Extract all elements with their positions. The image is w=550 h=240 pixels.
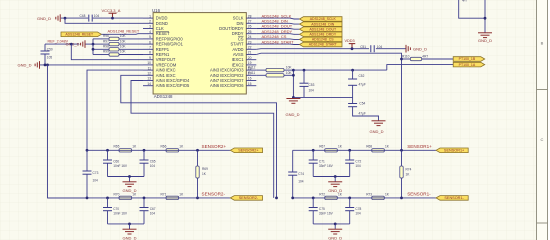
svg-text:R69: R69 [202, 167, 208, 171]
svg-text:SENSOR1-: SENSOR1- [407, 192, 431, 197]
svg-text:6: 6 [149, 40, 151, 44]
junction C72 top [348, 149, 351, 152]
svg-text:104: 104 [309, 89, 315, 93]
svg-text:R74: R74 [406, 168, 412, 172]
wire left stub R96 [93, 38, 109, 40]
pin 8 REFN1 [143, 54, 153, 56]
port flag ADS1248_SCLK [300, 17, 343, 22]
resistor R73 1K [372, 196, 385, 199]
pin 21 AVSS [246, 54, 256, 56]
capacitor C74 [288, 172, 297, 175]
resistor R111 10K [266, 74, 284, 77]
power symbol VCC3.3_A [109, 13, 117, 18]
svg-text:GND_D: GND_D [37, 16, 51, 21]
svg-text:104: 104 [355, 211, 361, 215]
svg-text:VDD3: VDD3 [345, 39, 355, 43]
ground GND_D (SENSOR1- filter) [328, 229, 342, 234]
svg-text:R73: R73 [366, 192, 372, 196]
ground GND_D (SENSOR2- filter) [123, 229, 137, 234]
resistor R98 10K [109, 48, 119, 51]
wire left stub R99 [93, 54, 109, 56]
ground GND_D (top-right) [478, 33, 492, 38]
junction row2 C74 [291, 197, 294, 200]
wire pin12 wrap [121, 75, 277, 198]
resistor R66 1K [166, 149, 179, 152]
wire feed left row2 [48, 65, 88, 198]
svg-text:GND_D: GND_D [18, 62, 32, 67]
resistor R74 1K [400, 166, 403, 178]
svg-text:SENSOR2+: SENSOR2+ [238, 148, 259, 152]
svg-text:10K: 10K [120, 45, 127, 49]
pin 27 DIN [246, 22, 256, 24]
pin 1 DVDD [143, 17, 153, 19]
svg-text:104: 104 [94, 14, 100, 18]
wire gnd stem2 [334, 224, 336, 229]
port flag ADS1248_RESET [61, 32, 102, 37]
svg-text:R71: R71 [161, 192, 167, 196]
overline RESET pin [156, 30, 169, 32]
wire R111 right [284, 74, 293, 76]
svg-text:10nF 16V: 10nF 16V [113, 211, 128, 215]
wire top-right drop [484, 0, 486, 33]
svg-text:R97: R97 [103, 39, 109, 43]
wire C66 stem2 [107, 163, 109, 176]
wire gnd rail row1 [313, 176, 350, 178]
svg-text:C74: C74 [298, 172, 304, 176]
wire C71 stem [312, 150, 314, 160]
pin 9 VREFOUT [143, 59, 153, 61]
resistor R68 1K [372, 149, 385, 152]
wire C75 stem2 [312, 211, 314, 224]
pin 6 REFN0/GPIO1 [143, 43, 153, 45]
wire C67 stem2 [143, 211, 145, 224]
pin 18 AIN3 IEXC/GPIO3 [246, 69, 256, 71]
wire gnd rail row2 [108, 223, 145, 225]
resistor R72 1K [325, 196, 338, 199]
wire gnd stem2 [129, 224, 131, 229]
svg-text:7: 7 [149, 46, 151, 50]
svg-text:104: 104 [355, 164, 361, 168]
svg-text:GND_D: GND_D [328, 188, 342, 193]
capacitor C75 [309, 208, 318, 211]
port flag SENSOR1+ [436, 148, 468, 153]
wire R74 stem top [401, 150, 403, 166]
wire AVSS rail down [256, 53, 401, 150]
svg-text:R99: R99 [103, 50, 109, 54]
wire C78 stem [349, 198, 351, 208]
svg-text:27: 27 [248, 20, 252, 24]
pin 24 CS [246, 38, 256, 40]
svg-text:ADS1248_RESET: ADS1248_RESET [108, 29, 140, 34]
resistor R67 1K [325, 149, 338, 152]
svg-text:5: 5 [149, 35, 151, 39]
svg-text:SENSOR1-: SENSOR1- [444, 196, 464, 200]
wire RESET to pin4 [102, 33, 144, 36]
junction C53 top [303, 69, 306, 72]
wire ADS1248_DRDY wire [256, 33, 299, 36]
pin 16 AIN7 IEXC/GPIO7 [246, 80, 256, 82]
wire left stub R98 [93, 48, 109, 50]
ground GND_D AIN row [35, 61, 39, 69]
junction VCC3.3_A tap [111, 17, 114, 20]
svg-text:C66: C66 [113, 159, 119, 163]
port flag PT100_1A [453, 62, 485, 67]
ground GND_D (SENSOR2+ filter) [123, 182, 137, 187]
overline CS pin [238, 35, 244, 37]
junction gnd stem row1 [128, 175, 131, 178]
svg-text:R65: R65 [114, 145, 120, 149]
wire to R110 [402, 58, 411, 60]
svg-text:SENSOR1+: SENSOR1+ [444, 148, 465, 152]
wire C72 stem [349, 150, 351, 160]
capacitor C72 [345, 160, 354, 163]
wire C53 stem bottom [303, 86, 305, 97]
svg-text:C50: C50 [47, 47, 53, 51]
port flag SENSOR1- [436, 196, 468, 201]
wire AVDD left segment [256, 48, 369, 51]
svg-text:24: 24 [248, 35, 252, 39]
svg-text:33nF 16V: 33nF 16V [319, 211, 334, 215]
wire REF stack bus [92, 39, 94, 55]
wire top-right L [459, 0, 485, 18]
junction C78 top [348, 197, 351, 200]
svg-text:GND_D: GND_D [286, 112, 300, 117]
wire ADS1248_SCLK wire [256, 17, 299, 20]
svg-text:C71: C71 [319, 159, 325, 163]
svg-text:10nF 16V: 10nF 16V [113, 164, 128, 168]
ground GND_D (C54) [372, 121, 386, 126]
capacitor C51 [371, 45, 374, 52]
svg-text:16: 16 [248, 77, 252, 81]
svg-text:R72: R72 [319, 192, 325, 196]
pin 13 AIN4 IEXC/GPIO4 [143, 80, 153, 82]
wire C73 stem bottom [86, 174, 88, 198]
wire to VREFOUT pin9 [71, 44, 143, 60]
wire C50 to GND wire [44, 54, 46, 65]
svg-text:C54: C54 [359, 101, 365, 105]
junction R tie mid [292, 74, 295, 77]
svg-text:R110: R110 [402, 55, 410, 59]
wire R110 to PT100_1B [422, 58, 454, 60]
wire C52 stem bottom [352, 85, 354, 97]
wire R69 stem top [197, 150, 199, 166]
svg-text:SENSOR2-: SENSOR2- [239, 196, 259, 200]
svg-text:ADS1248_START: ADS1248_START [309, 43, 338, 47]
pin 2 DGND [143, 22, 153, 24]
wire ADS1248_CS wire [256, 38, 299, 41]
junction VDD3 tap [351, 47, 354, 50]
svg-text:C75: C75 [319, 207, 325, 211]
pin 5 REFP0/GPIO0 [143, 38, 153, 40]
wire ADS1248_START wire [256, 43, 299, 45]
wire R112/R111 tie [292, 70, 294, 98]
svg-text:33nF 16V: 33nF 16V [319, 164, 334, 168]
svg-text:22: 22 [248, 46, 252, 50]
pin 12 AIN1 IEXC [143, 74, 153, 76]
svg-text:28: 28 [248, 14, 252, 18]
capacitor C53 [300, 83, 309, 86]
pin 15 AIN6 IEXC/GPIO6 [246, 85, 256, 87]
wire C74 stem top [292, 150, 294, 172]
wire GND_D to stack [86, 43, 94, 45]
svg-text:SENSOR2+: SENSOR2+ [202, 144, 227, 149]
ground GND_D top-left [56, 14, 60, 22]
svg-text:ADS1248_CS: ADS1248_CS [312, 38, 334, 42]
junction row2 C73 [86, 197, 89, 200]
resistor R71 1K [166, 196, 179, 199]
svg-text:GND_D: GND_D [328, 235, 342, 240]
pin 26 DOUT/DRDY [246, 28, 256, 30]
wire gnd stem [334, 177, 336, 182]
svg-text:104: 104 [150, 164, 156, 168]
svg-text:ADS1248_DOUT: ADS1248_DOUT [309, 27, 337, 31]
port flag ADS1248_DIN [300, 22, 343, 27]
wire row2 SENSOR2- [48, 197, 231, 199]
junction row1 left [86, 149, 89, 152]
ground GND_D (R tie) [286, 99, 300, 104]
svg-text:R70: R70 [114, 192, 120, 196]
svg-text:4R7: 4R7 [462, 0, 468, 3]
wire gnd stem [129, 177, 131, 182]
pin 10 VREFCOM [143, 64, 153, 66]
junction sensor feed tap [46, 64, 49, 67]
svg-text:AIN6 IEXC/GPIO6: AIN6 IEXC/GPIO6 [210, 83, 244, 88]
pin 11 AIN0 IEXC [143, 69, 153, 71]
wire C48 right to DVDD pin1 [93, 17, 143, 19]
pin 22 AVDD [246, 48, 256, 50]
svg-text:GND_D: GND_D [478, 38, 492, 43]
svg-text:25: 25 [248, 30, 252, 34]
svg-text:105: 105 [47, 56, 53, 60]
svg-text:10K: 10K [120, 34, 127, 38]
wire row1 SENSOR1+ [293, 149, 436, 151]
svg-text:SENSOR2-: SENSOR2- [202, 192, 226, 197]
svg-text:10K: 10K [286, 71, 293, 75]
junction stack row2 [92, 43, 95, 46]
pin 4 RESET [143, 33, 153, 35]
svg-text:ADS1248_SCLK: ADS1248_SCLK [310, 17, 337, 21]
junction VREFOUT tap [70, 43, 73, 46]
svg-text:ADS1248_DRDY: ADS1248_DRDY [309, 32, 337, 36]
pin 19 IEXC2 [246, 64, 256, 66]
svg-text:10K: 10K [286, 66, 293, 70]
wire pin17 stub [256, 74, 266, 76]
resistor R96 10K [109, 37, 119, 40]
svg-text:9: 9 [149, 56, 151, 60]
wire row2 SENSOR1- [293, 197, 436, 199]
wire R98 to pin7 [119, 48, 143, 50]
resistor R99 10K [109, 53, 119, 56]
op-amp U16 ADS1248 body [153, 13, 246, 94]
svg-text:C78: C78 [355, 207, 361, 211]
svg-text:R96: R96 [103, 34, 109, 38]
junction gnd stem row2 [128, 223, 131, 226]
wire filter top rail [293, 69, 386, 71]
wire C54 to ground [353, 107, 379, 121]
pin 14 AIN5 IEXC/GPIO5 [143, 85, 153, 87]
svg-text:R66: R66 [161, 145, 167, 149]
pin 28 SCLK [246, 17, 256, 19]
capacitor C70 [103, 208, 112, 211]
svg-text:1: 1 [149, 14, 151, 18]
wire pin13 wrap to right row2 [131, 81, 274, 198]
svg-text:ADS1248_RESET: ADS1248_RESET [65, 32, 93, 36]
svg-text:26: 26 [248, 25, 252, 29]
wire left stub R97 [93, 43, 109, 45]
svg-text:AIN5 IEXC/GPIO5: AIN5 IEXC/GPIO5 [156, 83, 190, 88]
svg-text:GND_D: GND_D [122, 235, 136, 240]
wire C74 stem bottom [292, 175, 294, 198]
svg-text:21: 21 [248, 51, 252, 55]
wire GND to AIN0 pin10 [40, 64, 143, 66]
svg-text:47µF: 47µF [359, 83, 366, 87]
ground GND_D (SENSOR1+ filter) [328, 182, 342, 187]
junction rail tee [292, 96, 295, 99]
svg-text:C70: C70 [113, 207, 119, 211]
wire DGND pin2 [65, 18, 143, 23]
junction top-right junction [484, 17, 487, 20]
junction gnd stem row1 [334, 175, 337, 178]
junction wrap A join [275, 197, 278, 200]
svg-text:104: 104 [150, 211, 156, 215]
svg-text:20: 20 [248, 56, 252, 60]
wire pin18 stub [256, 69, 266, 71]
wire C67 stem [143, 198, 145, 208]
capacitor C71 [309, 160, 318, 163]
resistor R70 1K [119, 196, 132, 199]
svg-text:8: 8 [149, 51, 151, 55]
wire C73 stem top [86, 150, 88, 171]
svg-text:C72: C72 [355, 159, 361, 163]
svg-text:R67: R67 [319, 145, 325, 149]
svg-text:R111: R111 [248, 71, 255, 75]
wire C72 stem2 [349, 163, 351, 176]
svg-text:2: 2 [149, 20, 151, 24]
capacitor C78 [345, 208, 354, 211]
wire C65 stem2 [143, 163, 145, 176]
svg-text:12: 12 [147, 72, 151, 76]
power symbol VDD3 [349, 44, 356, 49]
pin 25 DRDY [246, 33, 256, 35]
svg-text:10: 10 [147, 61, 151, 65]
junction gnd stem row2 [334, 223, 337, 226]
wire R99 to pin8 [119, 54, 143, 56]
pin 23 START [246, 43, 256, 45]
junction C67 top [143, 197, 146, 200]
sheet border [537, 0, 548, 240]
svg-text:VCC3.3_A: VCC3.3_A [102, 8, 121, 13]
svg-text:GND_D: GND_D [122, 188, 136, 193]
capacitor C65 [140, 160, 149, 163]
wire pin11 feed left row1 [87, 70, 143, 150]
wire C66 stem [107, 150, 109, 160]
port flag ADS1248_START [300, 42, 343, 47]
svg-text:14: 14 [147, 82, 151, 86]
svg-text:23: 23 [248, 40, 252, 44]
resistor R112 10K [266, 68, 284, 71]
svg-text:C: C [541, 137, 544, 142]
port flag SENSOR2- [230, 196, 262, 201]
wire AVDD right segment [376, 48, 406, 50]
capacitor C73 [83, 171, 92, 174]
ground GND_D AVDD end [406, 45, 410, 53]
junction R tie top [292, 69, 295, 72]
svg-text:104: 104 [93, 178, 99, 182]
svg-text:ADS1248_START: ADS1248_START [262, 39, 295, 44]
junction R69 bottom [196, 197, 199, 200]
svg-text:13: 13 [147, 77, 151, 81]
svg-text:104: 104 [298, 179, 304, 183]
junction R74 bottom [400, 197, 403, 200]
junction C50 bottom [44, 64, 47, 67]
svg-text:C53: C53 [309, 83, 315, 87]
junction C65 top [143, 149, 146, 152]
wire ADS1248_DIN wire [256, 22, 299, 25]
svg-text:4: 4 [149, 30, 151, 34]
svg-text:15: 15 [248, 82, 252, 86]
svg-text:C65: C65 [150, 159, 156, 163]
port flag PT100_1B [453, 57, 485, 62]
junction C66 top [106, 149, 109, 152]
svg-text:47µF: 47µF [359, 112, 366, 116]
pin 3 CLK [143, 28, 153, 30]
wire filter mid rail [293, 96, 352, 98]
port flag ADS1248_CS [300, 37, 343, 42]
capacitor C52 [348, 79, 357, 85]
svg-text:B: B [541, 41, 544, 46]
svg-text:104: 104 [377, 45, 383, 49]
svg-text:ADS1248_DIN: ADS1248_DIN [311, 22, 334, 26]
wire REF down to C50 [44, 44, 46, 51]
junction C75 top [312, 197, 315, 200]
wire C65 stem [143, 150, 145, 160]
wire row1 SENSOR2+ [87, 149, 230, 151]
ground GND_D REF row [81, 40, 85, 48]
capacitor C66 [103, 160, 112, 163]
svg-text:SENSOR1+: SENSOR1+ [407, 144, 432, 149]
capacitor C54 [348, 104, 357, 107]
wire C78 stem2 [349, 211, 351, 224]
junction R69 top [196, 149, 199, 152]
capacitor C48 [89, 15, 92, 22]
resistor R110 4R7 [410, 57, 421, 60]
wire ADS1248_DOUT wire [256, 28, 299, 31]
wire PT100_1A wire [387, 65, 453, 71]
wire R96 to pin5 [119, 38, 143, 40]
resistor R69 1K [196, 166, 199, 178]
junction R74 top [400, 149, 403, 152]
svg-text:GND_D: GND_D [370, 129, 384, 134]
svg-text:C51: C51 [360, 45, 366, 49]
wire C53 stem top [303, 70, 305, 83]
resistor R65 1K [119, 149, 132, 152]
svg-text:4R7: 4R7 [422, 55, 428, 59]
wire C70 stem [107, 198, 109, 208]
pin 17 AIN2 IEXC/GPIO2 [246, 74, 256, 76]
svg-text:R68: R68 [366, 145, 372, 149]
port flag ADS1248_DRDY [300, 32, 343, 37]
svg-text:U16: U16 [152, 8, 161, 13]
pin 20 IEXC1 [246, 59, 256, 61]
svg-text:GND_D: GND_D [413, 47, 427, 52]
junction stack row3 [92, 48, 95, 51]
port flag SENSOR2+ [230, 148, 262, 153]
wire GND to C48 left [61, 17, 88, 19]
svg-text:19: 19 [248, 61, 252, 65]
wire C75 stem [312, 198, 314, 208]
resistor R97 10K [109, 42, 119, 45]
pin 7 REFP1 [143, 48, 153, 50]
